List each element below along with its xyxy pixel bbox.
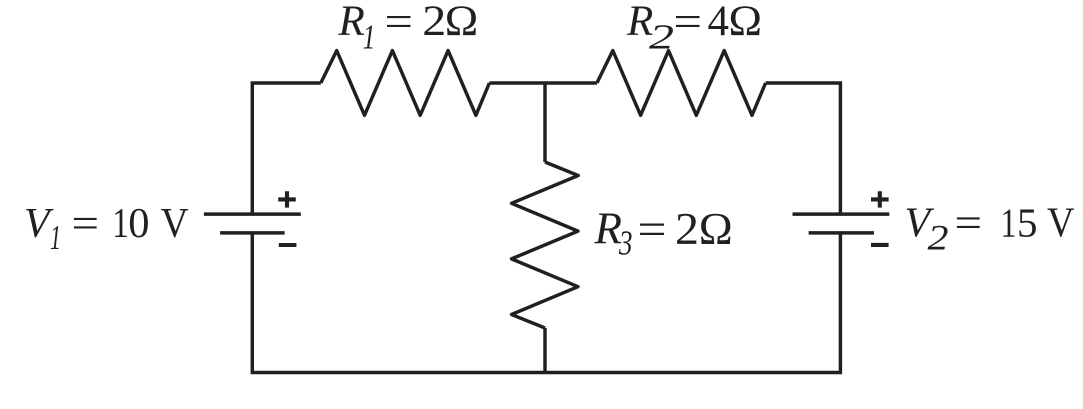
wire top-middle	[489, 81, 597, 84]
svg-text:1: 1	[1001, 199, 1017, 245]
svg-text:=: =	[674, 0, 703, 46]
V2 plus sign	[871, 191, 889, 207]
label R1 = 2ohm	[338, 0, 479, 56]
svg-text:1: 1	[363, 17, 376, 56]
svg-text:5: 5	[1017, 199, 1038, 245]
battery V2 long plate	[793, 212, 890, 215]
svg-text:1: 1	[50, 218, 61, 257]
svg-text:0: 0	[128, 200, 149, 247]
svg-text:R: R	[594, 204, 623, 254]
svg-text:Ω: Ω	[729, 0, 763, 45]
resistor R3	[512, 162, 579, 328]
svg-text:Ω: Ω	[445, 0, 479, 45]
V1 minus sign	[279, 243, 297, 247]
svg-text:2: 2	[675, 204, 699, 254]
battery V2 short plate	[809, 231, 874, 234]
V1 plus sign	[278, 191, 296, 207]
svg-text:3: 3	[618, 224, 632, 263]
battery V1 short plate	[220, 231, 285, 234]
wire top-left corner	[252, 83, 320, 213]
svg-text:2: 2	[649, 17, 674, 56]
label R3 = 2ohm	[594, 204, 733, 263]
wire R3 bottom stem	[543, 328, 546, 373]
svg-text:=: =	[385, 0, 414, 46]
battery V1 long plate	[204, 212, 301, 215]
wire R3 top stem	[543, 83, 546, 162]
V2 minus sign	[871, 243, 889, 247]
label V1 = 10 V	[24, 200, 189, 257]
svg-text:Ω: Ω	[699, 204, 733, 254]
svg-text:V: V	[161, 201, 189, 247]
svg-text:2: 2	[928, 218, 949, 258]
svg-text:R: R	[338, 0, 365, 45]
wire bottom loop	[252, 234, 840, 372]
wire top-right corner	[766, 83, 841, 213]
label V2 = 15 V	[905, 199, 1075, 257]
svg-text:=: =	[72, 201, 100, 247]
svg-text:1: 1	[112, 200, 129, 247]
svg-text:=: =	[955, 201, 983, 247]
svg-text:2: 2	[422, 0, 446, 45]
svg-text:4: 4	[708, 0, 730, 45]
resistor R2	[597, 51, 766, 116]
label R2 = 4ohm	[626, 0, 762, 56]
resistor R1	[321, 51, 490, 116]
svg-text:V: V	[1047, 200, 1075, 246]
svg-text:=: =	[638, 205, 667, 255]
